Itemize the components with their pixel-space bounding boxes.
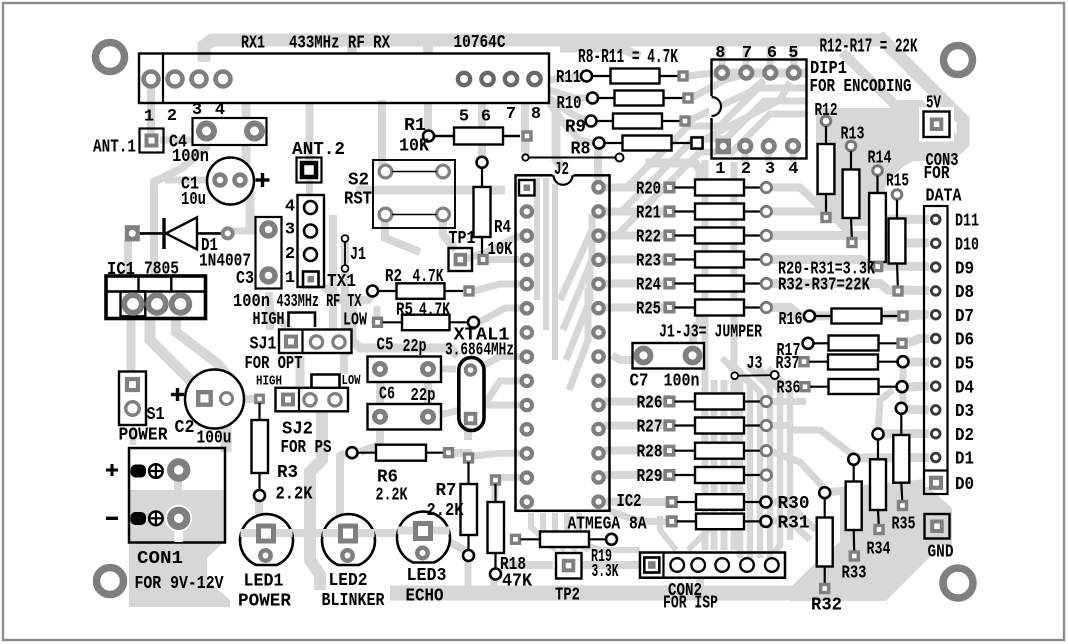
switch S2 link top	[392, 171, 437, 173]
wire dip pin up c	[767, 44, 774, 66]
regulator IC1 tab line	[106, 290, 206, 292]
diode D1 cathode bar	[162, 218, 165, 249]
testpoint TP2 pad	[556, 553, 582, 579]
resistor R10 lead left	[598, 97, 615, 99]
resistor R18 pad bottom	[490, 569, 501, 580]
resistor R11 lead right	[660, 75, 679, 77]
module RX1 pad 6	[481, 73, 493, 85]
socket J2 outline	[516, 175, 610, 511]
resistor R3 lead bottom	[258, 473, 260, 490]
connector TX1 pin1 pad	[303, 272, 319, 288]
svg-text:D7: D7	[955, 307, 974, 327]
socket J2 pad L14	[522, 497, 532, 507]
socket DIP1 pad 6	[765, 67, 777, 79]
wire CON1 plus down	[174, 478, 182, 512]
resistor R9 lead left	[596, 120, 613, 122]
wire dip pin up b	[743, 44, 750, 66]
svg-text:CON1: CON1	[137, 549, 183, 569]
wire link	[529, 157, 616, 159]
svg-text:R6: R6	[377, 468, 398, 488]
capacitor C4 pad left	[199, 124, 214, 139]
resistor R9 pad right	[681, 117, 689, 125]
wire j2 inner verticals c	[552, 184, 558, 360]
connector CON3 pin D4	[931, 382, 940, 391]
resistor R13 pad top	[846, 141, 856, 151]
resistor R33 body	[846, 482, 862, 531]
svg-text:C2: C2	[175, 418, 195, 438]
svg-text:R32-R37=22K: R32-R37=22K	[778, 276, 870, 296]
wire row r17	[908, 339, 929, 344]
wire link pad right	[616, 154, 624, 162]
resistor R34 body	[870, 459, 886, 510]
resistor R5 body	[402, 315, 450, 331]
module RX1 pad 1	[144, 72, 159, 87]
svg-text:R11: R11	[556, 68, 581, 88]
svg-text:C7: C7	[630, 372, 649, 392]
svg-text:D1: D1	[955, 450, 974, 470]
jumper SJ2 pin2	[304, 394, 316, 406]
svg-text:R8-R11 = 4.7K: R8-R11 = 4.7K	[578, 46, 678, 68]
resistor R15 pad bottom	[894, 287, 902, 295]
resistor R10 lead right	[664, 97, 684, 99]
resistor R9 body	[613, 114, 662, 129]
resistor R28 pad left	[665, 446, 674, 455]
svg-text:3: 3	[285, 221, 295, 240]
wire j2 bottom fan a	[531, 513, 556, 550]
resistor R10 pad right	[684, 94, 692, 102]
resistor R3 pad top	[256, 395, 263, 403]
resistor R14 lead bottom	[876, 262, 878, 267]
svg-text:FOR 9V-12V: FOR 9V-12V	[135, 574, 224, 594]
socket DIP1 pad 7	[741, 67, 753, 79]
wire c7 bundle 6	[768, 368, 790, 540]
connector CON3 pin D0 pad	[931, 478, 941, 488]
svg-text:R23: R23	[636, 252, 661, 272]
resistor R9 pad left	[586, 116, 597, 127]
wire c6 to j2	[433, 405, 521, 417]
wire r6 left down	[340, 453, 347, 528]
wire c7 bundle 2	[728, 362, 750, 558]
socket J2 pad R1	[593, 182, 603, 192]
resistor R23 lead left	[675, 258, 696, 260]
resistor R31 pad left	[668, 517, 677, 526]
svg-text:10K: 10K	[488, 240, 513, 260]
svg-text:S2: S2	[348, 171, 369, 191]
socket J2 pad R3	[593, 230, 603, 240]
svg-text:D8: D8	[955, 283, 974, 303]
wire D1 to C3 stub	[232, 228, 257, 235]
wire r18 down band	[491, 578, 498, 590]
wire S2 left down	[385, 220, 420, 252]
resistor R37 pad right	[898, 356, 909, 367]
svg-text:8: 8	[531, 105, 541, 124]
crystal XTAL1 pad bottom	[466, 414, 476, 424]
svg-text:TX1: TX1	[327, 272, 356, 292]
svg-text:FOR ENCODING: FOR ENCODING	[810, 77, 912, 97]
wire c7 bundle 5	[758, 368, 780, 552]
wire vert r36-r34	[878, 390, 893, 430]
wire r7 down band	[465, 560, 472, 590]
resistor R16 pad left	[804, 311, 815, 322]
resistor R8 body	[623, 136, 672, 151]
wire j2 to R21	[604, 208, 666, 216]
svg-text:C3: C3	[236, 269, 254, 289]
resistor R24 lead left	[675, 282, 696, 284]
wire ant1 to c4	[160, 137, 195, 144]
wire r5 left	[374, 306, 381, 318]
wire j2 to R20	[604, 184, 666, 192]
resistor R2 lead right	[445, 290, 464, 292]
pad GND	[925, 514, 950, 539]
wire r34 to d2	[878, 429, 929, 439]
svg-text:RX1: RX1	[241, 34, 265, 54]
connector CON1 outline	[129, 448, 225, 543]
resistor R16 pad right	[899, 312, 907, 320]
resistor R20 pad left	[665, 183, 674, 192]
resistor R30 lead left	[677, 501, 696, 503]
wire sj1 pin3 to sj2	[344, 350, 348, 374]
svg-text:100u: 100u	[197, 429, 232, 449]
bracket sj1	[289, 313, 316, 328]
socket DIP1 pad 5	[788, 67, 800, 79]
resistor R5 lead right	[450, 321, 469, 323]
resistor R33 pad top	[848, 454, 859, 465]
resistor R1 lead left	[434, 135, 454, 137]
svg-text:1: 1	[715, 160, 725, 179]
resistor R6 lead right	[426, 452, 443, 454]
resistor R27 lead right	[744, 424, 761, 426]
resistor R28 lead right	[744, 450, 761, 452]
svg-text:R24: R24	[636, 276, 661, 296]
switch S1 pin2	[126, 402, 140, 416]
jumper J3 wire	[738, 374, 771, 377]
capacitor C6 pad right	[423, 411, 434, 422]
wire elbow right of j2	[645, 163, 700, 183]
resistor R28 body	[695, 443, 744, 459]
wire row r16	[780, 312, 806, 320]
switch S2 pin bl	[379, 208, 392, 221]
svg-text:R34: R34	[867, 540, 891, 560]
jumper J3 pad right	[771, 371, 779, 379]
switch S2 pin tr	[437, 165, 450, 178]
resistor R2 pad right	[465, 287, 473, 295]
module RX1 pad 2	[168, 72, 183, 87]
resistor R28 pad right	[761, 446, 771, 456]
jumper J3 pad left	[731, 372, 738, 379]
connector TX1 pin4	[304, 201, 317, 214]
socket DIP1 pad 3	[763, 140, 775, 152]
wire j2 bottom fan b	[543, 513, 565, 550]
resistor R5 lead left	[383, 321, 403, 323]
resistor R28 lead left	[675, 450, 696, 452]
wire r2sq to j2	[474, 284, 521, 291]
wire r32 to d0	[830, 483, 924, 492]
wire ANT2 to TX1	[306, 180, 313, 200]
testpoint TP1 pad	[449, 248, 473, 271]
socket DIP1 outline	[712, 60, 807, 159]
wire row r20 to R12sq	[766, 188, 826, 213]
resistor R6 pad right	[445, 449, 453, 457]
diode D1 lead right	[197, 232, 223, 235]
capacitor C2 pad2	[221, 393, 233, 405]
svg-text:5: 5	[788, 44, 798, 63]
wire R9 sq to dip6	[688, 80, 764, 121]
svg-text:LOW: LOW	[343, 311, 367, 331]
wire r3 to led1	[259, 500, 266, 524]
resistor R29 pad right	[761, 470, 771, 480]
resistor R13 lead bottom	[851, 218, 852, 243]
resistor R19 pad left	[512, 535, 520, 543]
resistor R11 body	[611, 69, 660, 84]
wire c2 to r3pad	[233, 395, 256, 403]
svg-text:5: 5	[459, 108, 469, 127]
resistor R8 lead left	[604, 142, 623, 144]
wire C2 pad right down	[221, 420, 232, 452]
socket J2 pad R6	[593, 303, 603, 313]
resistor R33 lead bottom	[853, 530, 856, 556]
resistor R4 pad bottom	[479, 256, 487, 264]
capacitor C2 outline	[185, 370, 244, 429]
bracket sj2	[312, 375, 340, 389]
wire C1 left stub	[165, 177, 215, 184]
resistor R7 pad bottom	[463, 550, 474, 561]
resistor R13 lead top	[850, 151, 852, 170]
CON1 minus sign	[106, 517, 118, 520]
svg-text:433MHz RF RX: 433MHz RF RX	[289, 34, 390, 54]
resistor R22 body	[695, 228, 744, 244]
socket DIP1 pad 4	[787, 140, 799, 152]
C2 plus sign	[171, 393, 184, 396]
svg-text:R25: R25	[636, 300, 661, 320]
diode D1 lead left	[140, 232, 163, 235]
resistor R11 lead left	[592, 75, 611, 77]
resistor R24 pad left	[665, 279, 674, 288]
resistor R3 pad bottom	[254, 490, 265, 501]
resistor R29 body	[695, 467, 744, 483]
connector CON2 pin 4	[715, 558, 729, 572]
wire row r25	[766, 308, 929, 317]
svg-text:D0: D0	[955, 475, 974, 495]
svg-text:LED2: LED2	[329, 571, 368, 591]
wire isp verticals a	[702, 160, 709, 550]
socket J2 pad L8	[522, 352, 532, 362]
socket J2 pad R5	[593, 279, 603, 289]
diode D1 triangle	[166, 217, 197, 249]
resistor R19 pad right	[606, 534, 617, 545]
LED LED3 cathode pad	[417, 548, 427, 558]
svg-text:R16: R16	[779, 310, 803, 330]
resistor R37 lead left	[809, 361, 828, 363]
CON1 plus sign	[106, 469, 118, 472]
wire con2 to band	[696, 578, 704, 590]
wire IC1 pin1 down	[127, 318, 136, 374]
resistor R20 pad right	[761, 182, 771, 192]
regulator IC1 tab divider 1	[137, 276, 139, 292]
wire j2 to R24	[604, 280, 666, 288]
connector CON3 pin D10	[931, 239, 940, 248]
resistor R17 lead right	[879, 342, 898, 344]
wire xtal bot to j2	[475, 381, 521, 419]
wire r5ring to j2	[479, 308, 521, 322]
LED LED2 outline	[322, 514, 375, 565]
wire s1 down	[130, 430, 137, 445]
wire module pad1 down	[147, 86, 155, 134]
jumper SJ2 pin3	[329, 394, 341, 406]
wire tp1 to j2	[466, 236, 521, 259]
wire r12sq to d11	[830, 219, 929, 220]
resistor R19 lead right	[589, 538, 606, 540]
resistor R5 pad right	[468, 317, 479, 328]
svg-text:R31: R31	[778, 514, 810, 534]
resistor R25 pad left	[665, 303, 674, 312]
svg-text:D11: D11	[955, 212, 979, 232]
resistor R6 pad left	[347, 447, 358, 458]
resistor R12 lead top	[825, 126, 827, 144]
wire diag to r33	[790, 430, 853, 455]
resistor R8 pad right	[690, 136, 704, 150]
wire r33 to d1	[854, 453, 929, 463]
resistor R14 pad top	[873, 166, 883, 176]
resistor R15 lead top	[896, 200, 898, 219]
LED LED2 anode pad	[341, 526, 356, 541]
LED LED1 anode pad	[259, 526, 274, 541]
svg-text:3: 3	[765, 160, 775, 179]
wire c7 bundle 1	[722, 358, 740, 558]
resistor R32 body	[817, 518, 833, 567]
svg-text:DATA: DATA	[926, 187, 962, 207]
svg-text:FOR OPT: FOR OPT	[245, 354, 303, 374]
connector CON3 pin D8	[931, 287, 940, 296]
connector CON2 pin 6	[765, 558, 779, 572]
connector CON2 pin 3	[691, 558, 705, 572]
wire j2 to R26	[604, 398, 666, 406]
pad ANT.2	[297, 158, 322, 183]
regulator IC1 pin1 square	[121, 292, 146, 317]
regulator IC1 pin1	[124, 295, 142, 313]
connector CON2 pin 5	[740, 558, 754, 572]
resistor R1 pad right	[523, 132, 531, 140]
resistor R25 body	[695, 300, 744, 316]
wire r18 up	[492, 484, 499, 500]
resistor R19 lead left	[521, 538, 541, 540]
resistor R29 lead right	[744, 474, 761, 476]
svg-text:J1: J1	[350, 245, 366, 265]
socket J2 pad R2	[593, 206, 603, 216]
resistor R32 lead top	[824, 498, 826, 518]
wire c7 bundle 3	[734, 366, 760, 558]
resistor R27 body	[695, 418, 744, 434]
svg-text:R4: R4	[494, 218, 511, 238]
jumper SJ2 outline	[276, 388, 349, 412]
socket J2 pad L3	[522, 231, 532, 241]
jumper SJ1 pad1	[286, 337, 296, 347]
svg-text:D4: D4	[955, 378, 974, 398]
svg-text:R26: R26	[637, 394, 663, 414]
svg-text:LED1: LED1	[244, 572, 284, 592]
resistor R3 lead top	[258, 403, 260, 420]
socket J2 pad L6	[522, 303, 532, 313]
resistor R25 lead right	[744, 306, 761, 308]
switch S2 outline	[373, 160, 455, 228]
resistor R14 pad bottom	[874, 263, 882, 271]
socket J2 pad R10	[593, 400, 603, 410]
socket DIP1 pad 8	[716, 67, 728, 79]
resistor R23 lead right	[744, 258, 761, 260]
resistor R31 lead right	[744, 520, 761, 522]
resistor R32 pad top	[819, 487, 830, 498]
pad 5V	[919, 107, 954, 142]
svg-text:R9: R9	[565, 118, 586, 138]
svg-text:R29: R29	[637, 467, 663, 487]
svg-text:R36: R36	[777, 379, 801, 399]
svg-text:2.2K: 2.2K	[427, 501, 464, 521]
svg-text:R20: R20	[636, 180, 661, 200]
resistor R31 pad right	[760, 516, 771, 527]
svg-text:R10: R10	[557, 94, 582, 114]
capacitor C3 outline	[256, 217, 282, 289]
resistor R20 lead left	[675, 186, 696, 188]
wire c7 bundle 4	[748, 366, 770, 558]
svg-text:3.3K: 3.3K	[592, 562, 619, 582]
capacitor C6 pad left	[375, 411, 386, 422]
resistor R29 lead left	[675, 474, 696, 476]
resistor R34 pad bottom	[875, 526, 883, 534]
socket J2 pad L12	[522, 448, 532, 458]
wire j2 inner verticals a	[534, 178, 540, 300]
resistor R34 pad top	[873, 429, 884, 440]
wire j2 to R28	[604, 447, 666, 455]
wire xtal down	[464, 425, 472, 440]
svg-text:DIP1: DIP1	[810, 59, 847, 79]
svg-text:LED3: LED3	[407, 566, 447, 586]
wire R1 pad up	[424, 104, 432, 131]
svg-text:ECHO: ECHO	[406, 587, 444, 607]
wire R8-11 fan4	[549, 103, 594, 143]
resistor R23 pad left	[665, 255, 674, 264]
resistor R16 lead right	[882, 315, 899, 317]
wire s2 feed	[378, 100, 386, 165]
resistor R37 pad left	[800, 358, 808, 366]
connector CON2 outline	[640, 553, 785, 578]
svg-text:2: 2	[167, 107, 177, 126]
resistor R30 pad right	[760, 497, 771, 508]
connector CON3 pin D6	[931, 334, 940, 343]
svg-text:2.2K: 2.2K	[376, 486, 408, 506]
capacitor C2 pad1 square	[198, 392, 211, 405]
crystal XTAL1 outline	[459, 358, 484, 431]
wire row r37	[908, 358, 929, 367]
wire j2 fan c	[566, 264, 590, 360]
resistor R6 body	[376, 445, 426, 461]
C1 plus sign	[256, 178, 270, 181]
capacitor C5 pad left	[375, 364, 386, 375]
socket J2 pad R7	[593, 327, 603, 337]
mounting hole top-left	[96, 43, 125, 72]
resistor R24 body	[695, 276, 744, 292]
capacitor C4 outline	[193, 118, 267, 145]
module RX1 outline	[139, 54, 549, 104]
connector CON3 pin D5	[931, 358, 940, 367]
wire c5 left link	[376, 376, 384, 408]
socket J2 pad R8	[593, 351, 603, 361]
wire R11 sq to dip8	[687, 73, 714, 76]
socket J2 pad R9	[593, 376, 603, 386]
wire c7 left	[612, 355, 638, 360]
svg-text:R22: R22	[636, 228, 661, 248]
resistor R31 lead left	[677, 520, 696, 522]
wire j2 inner verticals b	[543, 178, 549, 330]
resistor R2 pad left	[367, 286, 378, 297]
